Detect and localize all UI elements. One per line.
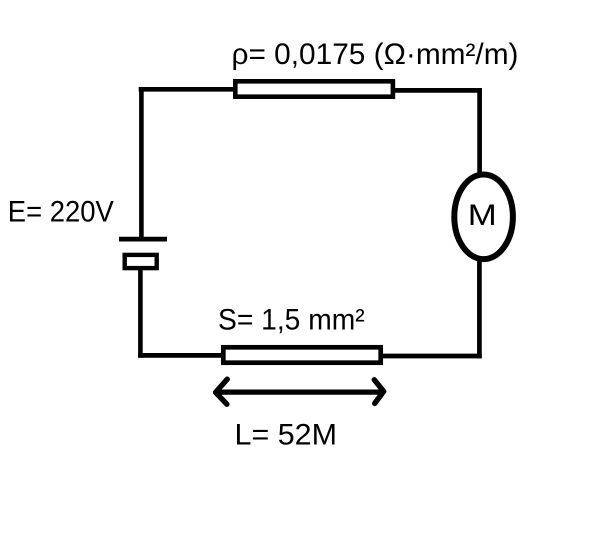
wire: bottom side, right segment [379, 354, 482, 359]
dimension arrow: left arrowhead [216, 379, 228, 404]
dimension arrow: right arrowhead [374, 380, 383, 404]
resistor R2 (bottom, conductor cross-section) [223, 347, 380, 362]
wire: left side, upper segment (to battery plate) [139, 87, 144, 239]
svg-text:ρ= 0,0175 (Ω·mm²/m): ρ= 0,0175 (Ω·mm²/m) [232, 38, 519, 71]
svg-text:E= 220V: E= 220V [8, 195, 114, 228]
resistor R1 (top, wire resistivity) [235, 81, 393, 96]
motor M (ellipse) [454, 175, 513, 260]
battery E: short plate (hollow rectangle) [125, 255, 157, 268]
svg-text:L= 52M: L= 52M [235, 418, 338, 451]
dimension arrow: shaft [217, 390, 382, 395]
svg-text:M: M [468, 199, 497, 232]
wire: left side, lower segment (battery to bottom) [138, 268, 143, 358]
battery E: long plate [119, 237, 167, 242]
wire: bottom side, left segment [138, 353, 225, 358]
svg-text:S= 1,5 mm²: S= 1,5 mm² [218, 303, 365, 336]
wire: right side, lower segment (motor to bottom) [477, 258, 482, 358]
wire: right side, upper segment (to motor) [477, 88, 482, 176]
wire: top side, left segment [139, 87, 237, 92]
wire: top side, right segment [392, 88, 482, 93]
